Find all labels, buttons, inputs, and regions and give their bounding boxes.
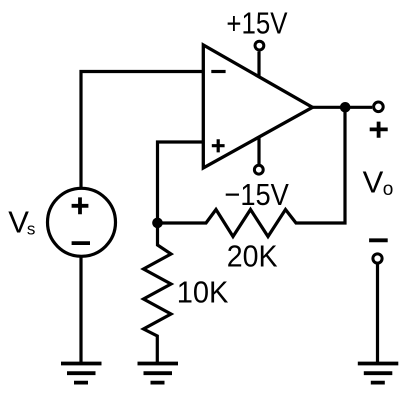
svg-text:s: s — [27, 219, 36, 238]
svg-text:20K: 20K — [227, 239, 278, 274]
svg-text:−15V: −15V — [224, 177, 289, 212]
svg-text:10K: 10K — [177, 274, 229, 309]
svg-text:V: V — [363, 164, 384, 199]
svg-text:+15V: +15V — [226, 6, 287, 41]
svg-text:o: o — [383, 179, 394, 200]
